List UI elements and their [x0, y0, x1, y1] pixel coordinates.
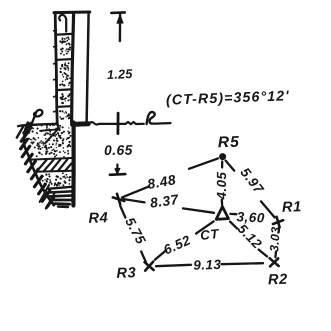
svg-text:R1: R1 [282, 199, 302, 216]
svg-text:9.13: 9.13 [193, 257, 222, 273]
column stipple [59, 37, 71, 120]
foundation stipple upper [28, 123, 71, 157]
dimension arrow top (1.25) [111, 11, 124, 14]
line R3-CT dashed (6.52) [155, 250, 166, 259]
monument column right outline [87, 12, 89, 122]
hatch band [31, 158, 71, 160]
svg-text:(CT-R5)=356°12': (CT-R5)=356°12' [166, 88, 290, 108]
svg-text:8.48: 8.48 [146, 172, 177, 192]
column left edge ticks [54, 29, 57, 32]
node CT triangle [216, 207, 228, 220]
foundation stipple lower [40, 172, 71, 186]
foundation bottom strokes [48, 187, 71, 189]
node R1 cross [277, 217, 280, 227]
line CT-R2 dashed (5.12) [230, 222, 237, 229]
ground line right [89, 122, 144, 124]
soil hachures [24, 123, 31, 133]
node R3 cross [145, 262, 154, 270]
line R4-R5 (8.48) [122, 186, 149, 197]
column top hook [59, 15, 66, 32]
svg-text:5.12: 5.12 [235, 221, 265, 252]
svg-text:5.97: 5.97 [237, 165, 267, 197]
svg-text:R2: R2 [268, 272, 288, 289]
svg-text:6.52: 6.52 [161, 232, 193, 257]
line R3-R2 (9.13) [156, 265, 191, 266]
svg-text:R4: R4 [88, 210, 108, 227]
foundation left boundary [24, 123, 54, 206]
svg-text:CT: CT [200, 226, 220, 243]
line R4-R3 dashed (5.75) [120, 206, 125, 218]
node R5 [219, 153, 226, 160]
svg-text:1.25: 1.25 [107, 67, 134, 82]
svg-text:R5: R5 [218, 134, 241, 152]
ground line left [18, 124, 57, 127]
P symbol left [29, 110, 43, 133]
P symbol right [147, 112, 155, 124]
node R2 cross [270, 258, 279, 266]
svg-text:3.03: 3.03 [267, 226, 283, 252]
column block joints [58, 33, 72, 36]
dimension tack bottom (0.65) [116, 165, 118, 174]
line R5-R1 dashed (5.97) [226, 161, 235, 171]
monument column left outline [55, 13, 57, 123]
svg-text:5.75: 5.75 [122, 215, 148, 247]
line R1-R2 dashed (3.03) [277, 227, 280, 233]
line R4-CT (8.37) [123, 199, 145, 203]
svg-text:8.37: 8.37 [149, 192, 180, 211]
foundation right thick line [71, 123, 75, 206]
svg-text:3,60: 3,60 [236, 209, 265, 225]
node R4 cross [117, 194, 120, 204]
monument column inner line [72, 13, 74, 122]
line CT-R1 (3,60) [230, 213, 236, 216]
svg-text:R3: R3 [116, 265, 136, 282]
line CT-R5 dashed (4.05) [221, 162, 223, 168]
foundation funnel lines [46, 123, 59, 143]
svg-text:0.65: 0.65 [104, 143, 133, 159]
ground bar across column [73, 121, 89, 127]
svg-text:4.05: 4.05 [214, 172, 229, 201]
monument column top cap [54, 11, 90, 15]
dimension vertical at ground [117, 113, 120, 133]
